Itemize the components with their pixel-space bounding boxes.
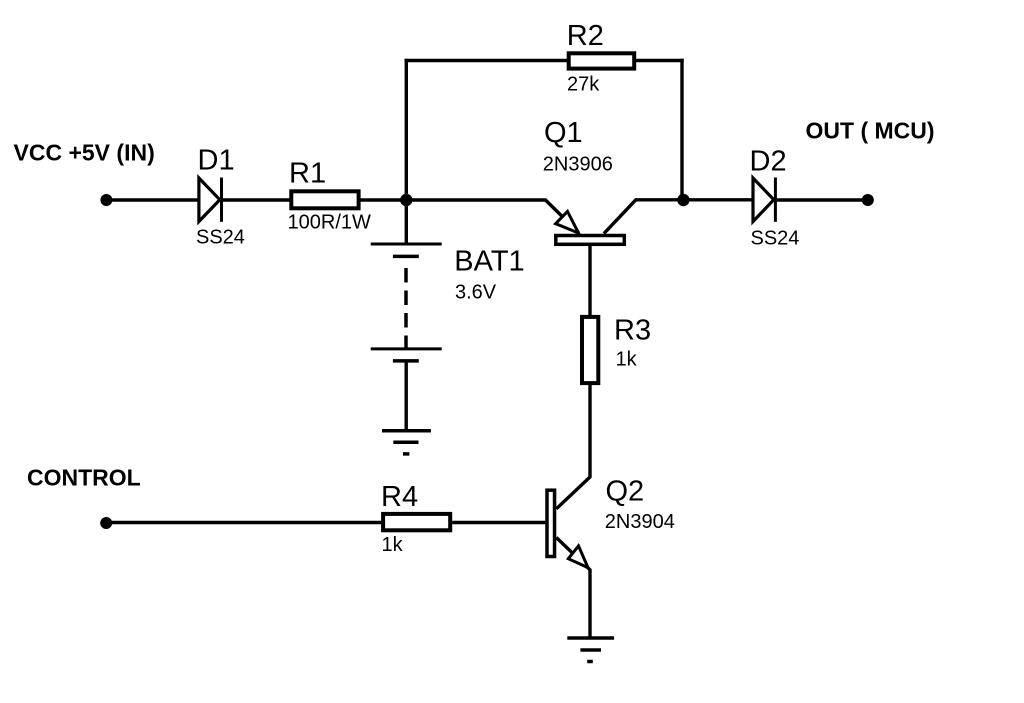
svg-text:R1: R1 (289, 158, 326, 190)
battery BAT1 dashed cell continuation (404, 268, 408, 349)
transistor Q1 collector diagonal and wire to D2 anode (604, 200, 753, 234)
transistor Q2 base bar (547, 490, 555, 556)
wire CONTROL terminal to R4 (106, 521, 382, 524)
wire vertical junction up to R2 and down to BAT1 (405, 59, 408, 244)
svg-text:R4: R4 (381, 481, 418, 513)
transistor Q1 emitter arrow (PNP, points to base bar) (556, 211, 579, 233)
svg-text:R2: R2 (567, 20, 604, 52)
svg-text:VCC +5V (IN): VCC +5V (IN) (14, 140, 155, 166)
wire R1 to Q1 emitter bend (359, 200, 579, 233)
resistor R1 (291, 191, 358, 208)
transistor Q2 emitter arrow (NPN, points away from bar) (568, 546, 588, 568)
svg-text:27k: 27k (567, 74, 600, 96)
wire R4 to Q2 base (452, 521, 546, 524)
svg-text:1k: 1k (382, 534, 404, 556)
node junction Q1 collector / R2 / D2 (677, 194, 689, 206)
battery BAT1 positive plate (top long) (371, 243, 442, 246)
svg-text:2N3904: 2N3904 (605, 511, 675, 533)
wire R3 down to Q2 collector diagonal (556, 385, 590, 509)
svg-text:SS24: SS24 (196, 227, 245, 249)
ground symbol below Q2 (567, 638, 614, 662)
resistor R4 (383, 514, 450, 530)
battery BAT1 positive plate (bottom long) (371, 347, 442, 350)
svg-text:D2: D2 (750, 145, 787, 177)
battery BAT1 negative plate (top short) (393, 255, 419, 259)
wire R2 right vertical down to collector node (680, 59, 683, 200)
wire D2 cathode to OUT terminal (775, 198, 868, 201)
svg-text:BAT1: BAT1 (454, 246, 524, 278)
svg-text:SS24: SS24 (751, 228, 800, 250)
svg-text:2N3906: 2N3906 (543, 154, 613, 176)
node CONTROL input terminal (100, 517, 112, 529)
svg-text:D1: D1 (198, 145, 235, 177)
wire D1 cathode to R1 (222, 198, 292, 201)
transistor Q2 emitter diagonal and wire to ground (556, 538, 590, 639)
wire Q1 base down to R3 (588, 246, 591, 317)
wire VCC terminal to D1 anode (106, 198, 199, 201)
diode D2 (753, 178, 775, 222)
svg-text:3.6V: 3.6V (455, 281, 497, 303)
wire R2 loop top left (405, 59, 567, 62)
svg-text:OUT ( MCU): OUT ( MCU) (806, 118, 935, 144)
node junction R1 / R2 / BAT1 (400, 194, 412, 206)
svg-text:Q1: Q1 (544, 117, 583, 149)
transistor Q1 base bar (556, 236, 625, 245)
diode D1 (199, 178, 222, 222)
svg-text:Q2: Q2 (606, 475, 645, 507)
resistor R2 (569, 53, 635, 68)
svg-text:R3: R3 (614, 315, 651, 347)
svg-text:100R/1W: 100R/1W (288, 212, 371, 234)
node VCC input terminal (100, 194, 112, 206)
wire BAT1 negative to ground (405, 362, 408, 431)
ground symbol below BAT1 (382, 431, 431, 454)
wire R2 loop top right (636, 59, 684, 62)
node OUT terminal (862, 194, 874, 206)
svg-text:1k: 1k (616, 349, 638, 371)
svg-text:CONTROL: CONTROL (27, 465, 141, 491)
battery BAT1 negative plate (bottom short) (393, 359, 419, 363)
resistor R3 (582, 317, 598, 383)
